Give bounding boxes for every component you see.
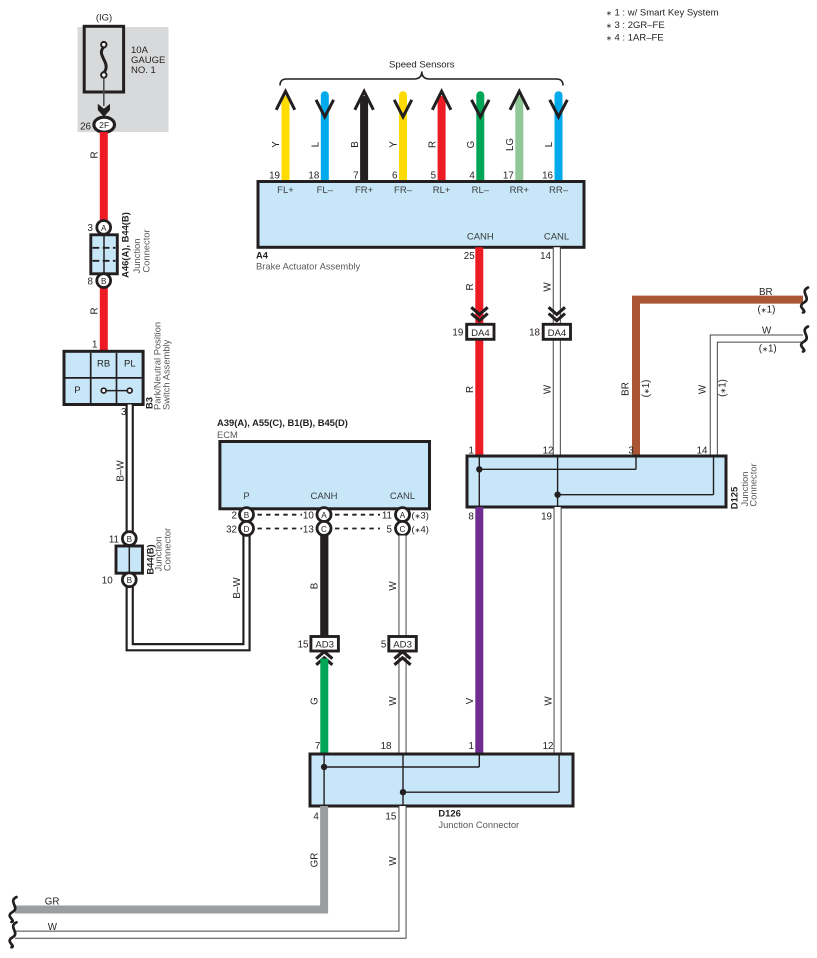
D125 Junction Connector	[467, 446, 759, 523]
svg-text:R: R	[465, 386, 476, 393]
svg-text:D125: D125	[729, 487, 740, 509]
svg-text:DA4: DA4	[548, 328, 567, 339]
svg-text:Y: Y	[271, 141, 282, 148]
svg-text:(∗1): (∗1)	[641, 380, 652, 398]
svg-text:3: 3	[88, 223, 94, 234]
svg-text:P: P	[243, 491, 249, 502]
svg-text:R: R	[427, 141, 438, 148]
connector AD3 pin5	[381, 637, 416, 665]
svg-text:(∗1): (∗1)	[759, 343, 777, 354]
wire B (ECM CANH 13 to AD3)	[310, 536, 325, 639]
D126 junction dot pin7/pin1/pin4	[321, 764, 327, 770]
D126 junction dot pin18/pin12/pin15	[400, 789, 406, 795]
ECM pin row 2: 32(D) 13(C) 5(C)(*4)	[226, 521, 429, 535]
svg-text:C: C	[321, 525, 327, 534]
svg-text:AD3: AD3	[393, 640, 412, 651]
fuse block background (IG)	[78, 12, 169, 132]
svg-text:1: 1	[92, 340, 97, 351]
svg-text:15: 15	[298, 640, 309, 651]
svg-text:Switch Assembly: Switch Assembly	[161, 339, 172, 410]
D125 junction dot pin1/pin3/pin8	[476, 466, 482, 472]
D126 internal jumper to pin1	[324, 766, 479, 768]
wire R (junction to B3)	[90, 281, 104, 352]
ECM pin 2 (B)	[240, 508, 254, 522]
D125 internal jumper pin1-pin8	[478, 458, 480, 506]
svg-text:W: W	[543, 696, 554, 706]
wire R (A4 CANH 25 to D125 pin1)	[464, 247, 480, 456]
svg-text:V: V	[465, 697, 476, 704]
speed sensor wire FR+ B pin7	[350, 91, 374, 183]
svg-text:W: W	[388, 581, 399, 591]
svg-text:LG: LG	[505, 138, 516, 151]
ECM pin 13 (C)	[317, 521, 331, 535]
speed sensor wire RL- G pin4	[466, 95, 489, 183]
svg-text:19: 19	[452, 328, 463, 339]
svg-text:2F: 2F	[99, 120, 109, 130]
svg-text:W: W	[698, 384, 709, 394]
svg-text:GR: GR	[310, 853, 321, 868]
wire BR (*1) from right	[620, 287, 808, 456]
svg-text:∗ 1 : w/ Smart Key System: ∗ 1 : w/ Smart Key System	[606, 8, 719, 19]
svg-text:∗ 4 : 1AR–FE: ∗ 4 : 1AR–FE	[606, 32, 664, 43]
speed sensor wire RR- L pin16	[542, 95, 567, 183]
svg-text:A46(A), B44(B): A46(A), B44(B)	[120, 212, 131, 278]
speed sensors brace	[280, 59, 563, 85]
svg-text:RL+: RL+	[433, 185, 451, 196]
A4 Brake Actuator Assembly	[256, 182, 584, 272]
svg-text:Connector: Connector	[748, 463, 759, 506]
svg-text:G: G	[310, 697, 321, 705]
connector DA4 pin18	[529, 307, 570, 339]
D125 internal jumper to pin14	[558, 494, 714, 496]
ECM	[217, 417, 430, 509]
speed sensor wire RL+ R pin5	[427, 91, 451, 183]
svg-text:CANL: CANL	[390, 491, 415, 502]
D125 internal jumper to pin3	[479, 468, 636, 470]
svg-text:(IG): (IG)	[96, 12, 112, 23]
svg-text:A4: A4	[256, 250, 269, 261]
svg-text:(∗4): (∗4)	[412, 523, 429, 534]
svg-text:B–W: B–W	[232, 577, 243, 599]
svg-text:RR–: RR–	[549, 185, 569, 196]
svg-text:CANL: CANL	[544, 232, 569, 243]
svg-text:CANH: CANH	[467, 232, 494, 243]
svg-text:13: 13	[303, 524, 314, 535]
svg-text:W: W	[388, 856, 399, 866]
svg-text:A: A	[321, 511, 327, 520]
svg-text:Junction Connector: Junction Connector	[438, 819, 519, 830]
D125 junction dot pin12/pin14/pin19	[554, 492, 560, 498]
svg-text:W: W	[388, 696, 399, 706]
ECM pin 10 (A)	[317, 508, 331, 522]
svg-text:26: 26	[80, 122, 91, 133]
wire B-W (B44 to ECM pin 32)	[130, 536, 247, 648]
ECM pin 11 (A)	[396, 508, 410, 522]
svg-text:GR: GR	[45, 896, 60, 907]
svg-text:ECM: ECM	[217, 429, 238, 440]
svg-text:D126: D126	[438, 808, 460, 819]
svg-text:8: 8	[88, 276, 94, 287]
svg-text:FL–: FL–	[317, 185, 334, 196]
svg-text:B: B	[310, 582, 321, 589]
wire V (D125 pin8 to D126 pin1)	[465, 507, 479, 755]
B3 Park/Neutral Position Switch Assembly	[64, 322, 172, 418]
svg-text:FL+: FL+	[277, 185, 294, 196]
svg-text:R: R	[90, 307, 101, 314]
svg-text:FR–: FR–	[394, 185, 413, 196]
svg-text:15: 15	[385, 812, 396, 823]
svg-text:(∗1): (∗1)	[758, 305, 776, 316]
connector 2F pin 26	[80, 117, 114, 132]
svg-text:R: R	[465, 283, 476, 290]
svg-text:8: 8	[468, 511, 474, 522]
svg-text:12: 12	[543, 741, 554, 752]
svg-text:CANH: CANH	[311, 491, 338, 502]
svg-text:A: A	[400, 511, 406, 520]
D126 internal jumper pin7-pin4	[323, 756, 325, 805]
svg-text:10: 10	[102, 576, 113, 587]
wire B-W (B3 pin3 to B44 junction)	[115, 405, 129, 547]
wire GR (D126 pin4 to left)	[10, 806, 324, 922]
ECM pin 32 (D)	[240, 521, 254, 535]
svg-text:P: P	[74, 385, 80, 396]
svg-text:R: R	[90, 151, 101, 158]
svg-text:W: W	[543, 384, 554, 394]
svg-text:W: W	[48, 922, 58, 933]
svg-text:RL–: RL–	[472, 185, 490, 196]
svg-text:5: 5	[387, 524, 393, 535]
svg-text:C: C	[400, 525, 406, 534]
svg-text:B: B	[244, 511, 250, 520]
svg-text:B: B	[127, 535, 133, 544]
svg-text:BR: BR	[759, 287, 773, 298]
fuse 10A GAUGE NO.1	[84, 26, 165, 92]
svg-text:Y: Y	[389, 141, 400, 148]
svg-text:L: L	[311, 141, 322, 147]
svg-text:G: G	[466, 141, 477, 149]
svg-text:AD3: AD3	[315, 640, 334, 651]
svg-text:14: 14	[540, 251, 551, 262]
svg-text:DA4: DA4	[471, 328, 490, 339]
svg-text:W: W	[543, 282, 554, 292]
svg-text:Connector: Connector	[162, 528, 173, 571]
svg-text:RB: RB	[97, 358, 110, 369]
svg-text:25: 25	[464, 251, 475, 262]
wire R (2F to junction A46)	[90, 132, 104, 228]
svg-text:2: 2	[232, 511, 237, 522]
svg-text:(∗1): (∗1)	[718, 379, 729, 397]
svg-text:5: 5	[381, 640, 387, 651]
speed sensor wire FL- L pin18	[308, 95, 333, 183]
D126 internal jumper pin18-pin15	[402, 756, 404, 805]
svg-text:10: 10	[303, 511, 314, 522]
speed sensor wire RR+ LG pin17	[503, 91, 529, 183]
wire W (D125 pin19 to D126 pin12)	[543, 507, 558, 755]
svg-text:D: D	[244, 525, 250, 534]
wire W (*1) from right	[698, 326, 809, 457]
ECM pin 5 (C)	[396, 521, 410, 535]
svg-text:Connector: Connector	[140, 229, 151, 272]
wire W (ECM CANL 5 to AD3 to D126 pin18)	[381, 536, 403, 756]
D126 internal jumper to pin12	[403, 791, 559, 793]
notes *1 *3 *4	[606, 8, 719, 44]
svg-text:BR: BR	[620, 382, 631, 396]
svg-text:(∗3): (∗3)	[412, 510, 429, 521]
wire G (AD3 to D126 pin7)	[310, 659, 325, 756]
svg-text:18: 18	[381, 741, 392, 752]
wire fuse to 2F	[98, 78, 110, 117]
connector DA4 pin19	[452, 307, 494, 339]
wire W (A4 CANL 14 to D125 pin12)	[540, 247, 557, 456]
svg-text:11: 11	[109, 535, 119, 546]
connector AD3 pin15	[298, 637, 339, 665]
D126 Junction Connector	[310, 754, 573, 830]
svg-text:NO. 1: NO. 1	[131, 65, 156, 76]
svg-text:B: B	[127, 576, 133, 585]
svg-text:∗ 3 : 2GR–FE: ∗ 3 : 2GR–FE	[606, 20, 665, 31]
svg-text:11: 11	[382, 511, 392, 522]
svg-text:A: A	[101, 224, 107, 233]
svg-text:4: 4	[313, 812, 319, 823]
speed sensor wire FL+ Y pin19	[269, 91, 295, 183]
svg-text:1: 1	[469, 741, 474, 752]
svg-text:18: 18	[529, 328, 540, 339]
svg-text:A39(A), A55(C), B1(B), B45(D): A39(A), A55(C), B1(B), B45(D)	[217, 417, 348, 428]
svg-text:19: 19	[541, 511, 552, 522]
svg-text:RR+: RR+	[510, 185, 530, 196]
junction connector B44(B)	[102, 528, 173, 587]
wire W (D126 pin15 to left)	[10, 806, 403, 947]
svg-text:L: L	[544, 141, 555, 147]
svg-text:7: 7	[315, 741, 320, 752]
svg-text:B: B	[350, 141, 361, 148]
svg-text:B: B	[101, 277, 107, 286]
svg-text:B–W: B–W	[115, 460, 126, 482]
D125 internal jumper pin12-pin19	[557, 458, 559, 506]
ECM pin row 1: 2(B) 10(A) 11(A)(*3)	[232, 508, 429, 522]
svg-text:FR+: FR+	[355, 185, 374, 196]
junction connector A46(A),B44(B)	[88, 212, 152, 287]
svg-text:W: W	[762, 326, 772, 337]
svg-text:Speed Sensors: Speed Sensors	[389, 59, 455, 70]
svg-text:Brake Actuator Assembly: Brake Actuator Assembly	[256, 260, 361, 271]
speed sensor wire FR- Y pin6	[389, 95, 412, 183]
svg-text:32: 32	[226, 524, 237, 535]
svg-text:PL: PL	[124, 358, 136, 369]
